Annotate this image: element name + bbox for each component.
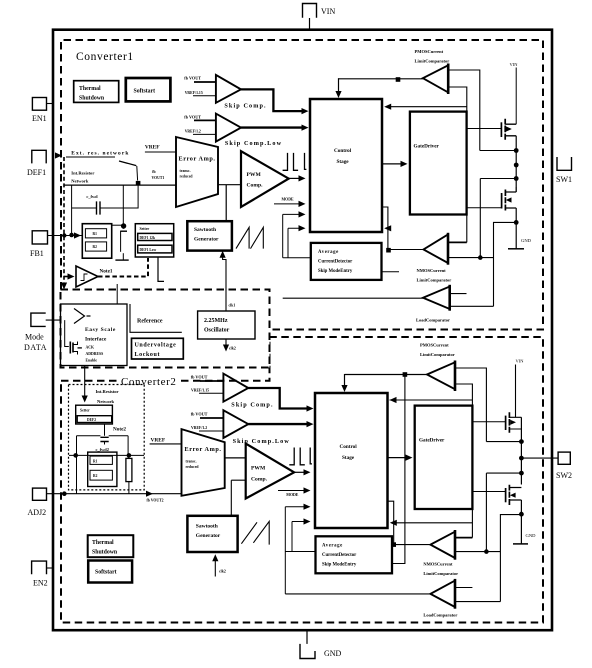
svg-text:ADDRESS: ADDRESS: [86, 352, 104, 356]
svg-text:GND: GND: [526, 533, 537, 538]
svg-text:LoadComparator: LoadComparator: [423, 613, 457, 618]
svg-text:NMOSCurrent: NMOSCurrent: [423, 562, 453, 567]
svg-text:Network: Network: [71, 179, 89, 184]
svg-text:Oscillator: Oscillator: [204, 328, 230, 334]
svg-text:LimitComparator: LimitComparator: [420, 352, 455, 357]
svg-text:VIN: VIN: [510, 62, 519, 67]
svg-text:SW1: SW1: [556, 175, 572, 184]
svg-text:Error Amp.: Error Amp.: [185, 446, 222, 453]
svg-text:Skip Comp.: Skip Comp.: [231, 401, 273, 408]
svg-text:Shutdown: Shutdown: [79, 96, 105, 102]
svg-text:Stage: Stage: [342, 455, 355, 461]
svg-text:fb VOUT: fb VOUT: [184, 115, 201, 120]
svg-text:DEF2: DEF2: [87, 418, 96, 422]
svg-text:Undervoltage: Undervoltage: [135, 343, 177, 349]
svg-text:FB1: FB1: [30, 249, 44, 258]
svg-text:VREF/1.15: VREF/1.15: [191, 388, 209, 392]
svg-text:VREF: VREF: [145, 145, 160, 151]
svg-text:GateDriver: GateDriver: [414, 144, 440, 150]
svg-text:R1: R1: [93, 232, 98, 236]
svg-text:EN2: EN2: [33, 579, 48, 588]
svg-text:Sawtooth: Sawtooth: [196, 524, 218, 530]
svg-text:Converter2: Converter2: [121, 376, 176, 388]
svg-text:Shutdown: Shutdown: [92, 550, 118, 556]
svg-text:Comp.: Comp.: [251, 477, 268, 483]
svg-text:PMOSCurrent: PMOSCurrent: [420, 343, 449, 348]
svg-text:Interface: Interface: [85, 337, 107, 343]
svg-text:Note1: Note1: [100, 268, 113, 274]
svg-text:fb VOUT2: fb VOUT2: [147, 499, 164, 503]
svg-text:Converter1: Converter1: [76, 51, 134, 63]
svg-text:Sawtooth: Sawtooth: [194, 227, 216, 233]
svg-text:VREF/1.2: VREF/1.2: [191, 426, 207, 430]
svg-text:fb: fb: [152, 170, 155, 174]
svg-text:Mode: Mode: [25, 333, 44, 342]
svg-text:PMOSCurrent: PMOSCurrent: [415, 49, 444, 54]
svg-text:R2: R2: [93, 245, 98, 249]
svg-text:clk2: clk2: [229, 347, 236, 351]
svg-text:R1: R1: [93, 459, 98, 463]
svg-text:2.25MHz: 2.25MHz: [204, 318, 228, 324]
svg-text:VIN: VIN: [321, 7, 335, 16]
svg-text:Error Amp.: Error Amp.: [179, 156, 216, 163]
svg-text:SW2: SW2: [556, 471, 572, 480]
svg-text:clk2: clk2: [219, 570, 226, 574]
svg-text:Setter: Setter: [80, 409, 90, 413]
svg-text:c_fwd: c_fwd: [86, 194, 98, 199]
svg-text:Average: Average: [322, 544, 343, 549]
svg-text:GateDriver: GateDriver: [419, 438, 445, 444]
svg-text:Note2: Note2: [113, 427, 126, 433]
svg-text:DATA: DATA: [24, 343, 47, 352]
svg-text:LimitComparator: LimitComparator: [417, 278, 452, 283]
svg-text:LoadComparator: LoadComparator: [416, 318, 450, 323]
svg-text:ADJ2: ADJ2: [28, 508, 47, 517]
svg-text:ACK: ACK: [86, 346, 94, 350]
svg-text:DEF1 12k: DEF1 12k: [140, 236, 155, 240]
svg-text:Int.Resistor: Int.Resistor: [96, 389, 119, 394]
svg-text:transc.: transc.: [180, 169, 191, 173]
svg-text:Control: Control: [340, 444, 358, 450]
svg-text:CurrentDetector: CurrentDetector: [322, 553, 357, 558]
svg-text:DEF1 Low: DEF1 Low: [140, 248, 157, 252]
svg-text:Lockout: Lockout: [135, 352, 161, 358]
svg-text:c_fwd2: c_fwd2: [96, 447, 109, 452]
svg-text:VIN: VIN: [516, 359, 525, 364]
svg-text:Enable: Enable: [86, 359, 98, 363]
svg-text:VREF/1.15: VREF/1.15: [185, 91, 203, 95]
svg-text:Setter: Setter: [140, 227, 150, 231]
svg-text:CurrentDetector: CurrentDetector: [318, 260, 353, 265]
svg-text:Skip Comp.Low: Skip Comp.Low: [233, 438, 290, 445]
svg-text:DEF1: DEF1: [27, 168, 46, 177]
svg-text:fb VOUT: fb VOUT: [191, 375, 208, 380]
svg-text:fb VOUT: fb VOUT: [191, 412, 208, 417]
svg-text:GND: GND: [324, 649, 342, 658]
svg-text:Easy Scale: Easy Scale: [85, 327, 116, 333]
svg-text:PWM: PWM: [251, 466, 266, 472]
svg-text:Ext. res. network: Ext. res. network: [71, 150, 129, 156]
svg-text:R2: R2: [93, 474, 98, 478]
svg-text:LimitComparator: LimitComparator: [423, 571, 458, 576]
svg-text:NMOSCurrent: NMOSCurrent: [417, 268, 447, 273]
svg-text:Thermal: Thermal: [92, 540, 114, 546]
svg-text:reduced: reduced: [186, 465, 200, 469]
svg-text:PWM: PWM: [247, 172, 262, 178]
svg-text:Thermal: Thermal: [79, 86, 101, 92]
svg-text:VREF/1.2: VREF/1.2: [185, 129, 201, 133]
svg-text:Reference: Reference: [137, 319, 163, 325]
svg-text:MODE: MODE: [286, 493, 299, 497]
svg-text:Control: Control: [334, 148, 352, 154]
svg-text:Softstart: Softstart: [95, 570, 117, 576]
svg-text:MODE: MODE: [282, 198, 295, 202]
svg-text:EN1: EN1: [32, 114, 47, 123]
svg-text:Average: Average: [318, 250, 339, 255]
svg-text:Skip Comp.: Skip Comp.: [224, 103, 266, 110]
svg-text:Int.Resistor: Int.Resistor: [71, 171, 94, 176]
svg-text:Generator: Generator: [196, 533, 221, 539]
svg-text:Skip Comp.Low: Skip Comp.Low: [225, 140, 282, 147]
svg-text:Stage: Stage: [337, 159, 350, 165]
svg-text:Generator: Generator: [194, 237, 219, 243]
svg-text:reduced: reduced: [180, 175, 194, 179]
svg-text:LimitComparator: LimitComparator: [415, 59, 450, 64]
svg-text:Skip ModeEntry: Skip ModeEntry: [318, 269, 353, 274]
svg-text:Network: Network: [97, 399, 115, 404]
svg-text:GND: GND: [521, 238, 532, 243]
svg-text:VREF: VREF: [151, 438, 166, 444]
svg-text:Comp.: Comp.: [247, 183, 264, 189]
svg-text:transc.: transc.: [186, 460, 197, 464]
svg-text:fb VOUT: fb VOUT: [184, 76, 201, 81]
svg-text:Softstart: Softstart: [134, 89, 156, 95]
svg-text:clk1: clk1: [229, 304, 236, 308]
svg-text:Skip ModeEntry: Skip ModeEntry: [322, 563, 357, 568]
svg-text:VOUT1: VOUT1: [152, 176, 165, 180]
